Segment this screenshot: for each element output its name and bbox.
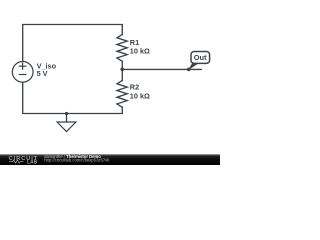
svg-text:R2: R2 [130, 83, 139, 92]
svg-text:10 kΩ: 10 kΩ [130, 92, 150, 101]
svg-text:5 V: 5 V [37, 69, 48, 78]
svg-text:Out: Out [194, 53, 207, 62]
svg-text:http://circuitlab.com/c/bekp53: http://circuitlab.com/c/bekp53z57vk [44, 158, 110, 163]
svg-text:10 kΩ: 10 kΩ [130, 46, 150, 55]
svg-text:LAB: LAB [27, 159, 38, 165]
